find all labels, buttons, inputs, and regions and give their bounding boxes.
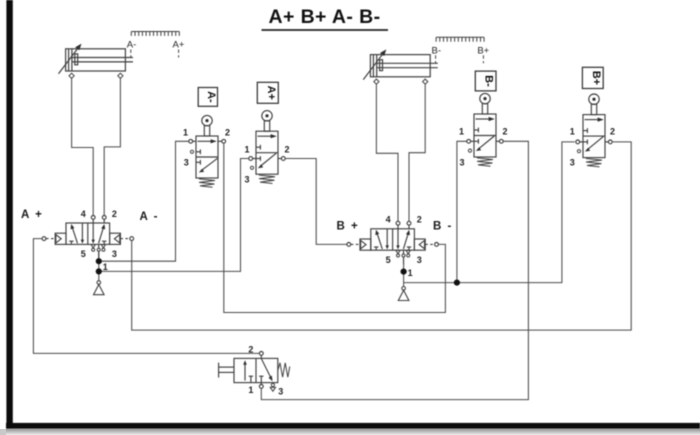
svg-text:3: 3 (112, 249, 117, 259)
svg-text:B-: B- (432, 45, 442, 56)
svg-text:B+: B+ (477, 45, 489, 56)
svg-text:A+ B+ A- B-: A+ B+ A- B- (268, 6, 380, 28)
svg-text:1: 1 (570, 126, 575, 136)
svg-text:B +: B + (337, 221, 360, 233)
svg-text:3: 3 (570, 158, 575, 168)
svg-text:4: 4 (81, 209, 86, 219)
svg-text:2: 2 (112, 209, 117, 219)
svg-text:3: 3 (417, 255, 422, 265)
svg-text:1: 1 (183, 127, 188, 137)
svg-text:A-: A- (127, 40, 137, 51)
svg-text:1: 1 (244, 144, 249, 154)
svg-text:2: 2 (502, 126, 507, 136)
svg-text:1: 1 (103, 262, 108, 272)
svg-text:A -: A - (140, 211, 159, 223)
svg-text:1: 1 (408, 268, 413, 278)
svg-text:4: 4 (386, 215, 391, 225)
svg-text:2: 2 (284, 144, 289, 154)
svg-text:2: 2 (225, 127, 230, 137)
svg-text:1: 1 (459, 126, 464, 136)
svg-text:3: 3 (459, 158, 464, 168)
svg-text:2: 2 (610, 126, 615, 136)
svg-text:3: 3 (184, 158, 189, 168)
svg-text:5: 5 (81, 249, 86, 259)
svg-text:5: 5 (386, 255, 391, 265)
svg-text:A+: A+ (265, 86, 277, 100)
svg-text:3: 3 (244, 174, 249, 184)
svg-text:2: 2 (417, 215, 422, 225)
svg-text:3: 3 (278, 386, 283, 396)
svg-text:A+: A+ (173, 40, 185, 51)
svg-text:B-: B- (483, 75, 495, 87)
svg-text:A +: A + (21, 209, 43, 221)
svg-text:A-: A- (205, 91, 217, 103)
svg-text:B+: B+ (590, 71, 602, 85)
svg-text:1: 1 (248, 385, 253, 395)
svg-text:B -: B - (433, 221, 453, 233)
